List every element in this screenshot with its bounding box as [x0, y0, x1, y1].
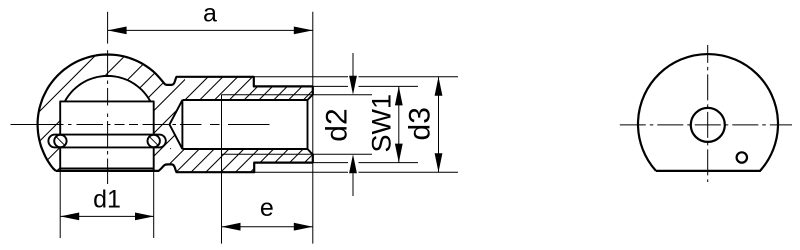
svg-text:SW1: SW1	[367, 94, 397, 153]
svg-text:d2: d2	[321, 108, 354, 141]
svg-text:e: e	[260, 194, 274, 222]
svg-text:a: a	[203, 0, 217, 28]
svg-text:d3: d3	[404, 107, 437, 140]
svg-text:d1: d1	[93, 186, 121, 214]
